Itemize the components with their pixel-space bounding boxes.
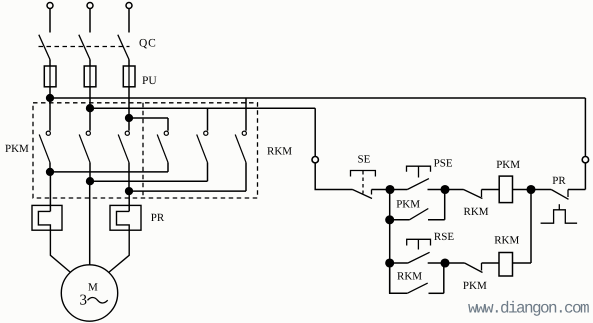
node B bbox=[441, 186, 449, 194]
wire node E to RSE bbox=[390, 262, 408, 264]
wire PR to right rail bbox=[568, 189, 585, 191]
svg-text:PKM: PKM bbox=[396, 198, 420, 210]
right rail lower bbox=[584, 163, 586, 190]
node phase3 junction bbox=[126, 115, 133, 122]
knife switch QC pole 2 blade bbox=[79, 35, 90, 60]
node F bbox=[441, 259, 449, 267]
bus line phase 2 bbox=[90, 107, 315, 109]
bus line phase 1 bbox=[50, 97, 585, 99]
wire U to heater bbox=[49, 172, 51, 212]
riser to node B bbox=[444, 190, 446, 220]
svg-text:PU: PU bbox=[142, 75, 157, 87]
fuse PU1 bbox=[44, 66, 56, 87]
PKM NO holding blade bbox=[409, 209, 428, 220]
wire node A to PSE bbox=[390, 189, 407, 191]
SE plunger link (dashed) bbox=[362, 171, 364, 194]
cross wire V (PKM2-RKM2) bbox=[90, 180, 208, 182]
wire W to heater bbox=[128, 191, 130, 211]
wire QC2 to fuse bbox=[89, 60, 91, 109]
svg-text:RKM: RKM bbox=[267, 146, 292, 158]
PKM interlock right tick bbox=[481, 263, 483, 271]
wire RKM c1 bottom bbox=[167, 163, 169, 172]
svg-text:RKM: RKM bbox=[494, 235, 519, 247]
svg-text:PKM: PKM bbox=[463, 280, 487, 292]
PSE plunger link bbox=[418, 166, 420, 177]
node U junction bbox=[47, 169, 54, 176]
start button RSE bracket bbox=[407, 239, 431, 245]
SE NC blade bbox=[353, 190, 373, 199]
coil PKM bbox=[499, 176, 512, 203]
RKM main contact 2 bbox=[197, 131, 208, 162]
wire PKM c2 bottom bbox=[89, 163, 91, 182]
wire node E down to RKM holding row bbox=[390, 263, 408, 293]
wire node B to RKM interlock bbox=[445, 189, 464, 191]
wire PKM c1 bottom bbox=[49, 163, 51, 172]
RKM NO holding blade bbox=[407, 283, 428, 293]
motor M circle bbox=[61, 265, 117, 321]
svg-text:www.diangon.com: www.diangon.com bbox=[468, 300, 589, 318]
RKM main contact 1 bbox=[157, 131, 168, 162]
wire coil PKM to node C bbox=[513, 189, 532, 191]
QC mechanical link (dashed) bbox=[39, 46, 130, 48]
wire RKM c2 bottom bbox=[207, 163, 209, 182]
dashed enclosure PKM+RKM outer bbox=[33, 103, 258, 198]
wire feed PKM contact 1 bbox=[49, 98, 51, 131]
wire PSE to node B bbox=[428, 189, 446, 191]
terminal L1 bbox=[47, 3, 53, 9]
motor tilde bbox=[88, 298, 108, 303]
PKM main contact 2 bbox=[79, 131, 90, 162]
RSE plunger link bbox=[417, 239, 419, 249]
fuse PU2 bbox=[84, 66, 96, 87]
wire feed RKM contact 2 (from phase2 bus) bbox=[207, 108, 209, 131]
bus line phase 3 bbox=[129, 117, 168, 119]
svg-text:3: 3 bbox=[80, 292, 88, 308]
wire QC3 to fuse bbox=[128, 60, 130, 119]
wire SE to node A bbox=[372, 189, 391, 191]
wire PKM c3 bottom bbox=[128, 163, 130, 192]
thermal contact PR blade bbox=[551, 190, 568, 200]
dashed divider between PKM and RKM boxes bbox=[142, 103, 144, 198]
svg-text:PSE: PSE bbox=[434, 157, 453, 169]
wire feed PKM contact 2 bbox=[89, 108, 91, 131]
left rail lower bbox=[315, 163, 352, 190]
thermal heater PR element 2 bbox=[107, 205, 141, 273]
right rail upper bbox=[584, 98, 586, 157]
wire node D to PKM aux bbox=[390, 219, 410, 221]
SE right terminal tick bbox=[371, 190, 373, 195]
wire interlock to coil RKM bbox=[482, 262, 500, 264]
wire coil RKM to riser bbox=[513, 262, 532, 264]
RKM main contact 3 bbox=[235, 131, 246, 162]
wire node C to PR contact bbox=[531, 189, 551, 191]
svg-text:PR: PR bbox=[151, 212, 165, 224]
riser coil RKM to node C bbox=[530, 190, 532, 264]
svg-text:RKM: RKM bbox=[464, 206, 489, 218]
RKM NC interlock blade bbox=[464, 190, 483, 199]
terminal L3 bbox=[126, 3, 132, 9]
RSE NO blade bbox=[408, 252, 430, 263]
node V junction bbox=[87, 178, 94, 185]
vertical branch rail from node A bbox=[389, 190, 391, 294]
fuse PU3 bbox=[123, 66, 135, 87]
svg-text:M: M bbox=[88, 282, 98, 294]
PKM main contact 1 bbox=[39, 131, 50, 162]
svg-text:PKM: PKM bbox=[5, 143, 29, 155]
wire QC1 to fuse bbox=[49, 60, 51, 99]
PR right tick bbox=[567, 190, 569, 198]
RKM interlock right tick bbox=[481, 190, 483, 198]
node E (RSE row) bbox=[386, 259, 394, 267]
left rail connector circle bbox=[312, 157, 318, 163]
riser to node F bbox=[443, 263, 445, 293]
wire L2 drop bbox=[89, 9, 91, 33]
start button PSE bracket bbox=[407, 166, 431, 172]
wire node F to PKM interlock bbox=[445, 262, 465, 264]
node phase1 junction bbox=[47, 95, 54, 102]
wire feed RKM contact 1 (from phase3 bus) bbox=[167, 118, 169, 131]
svg-text:SE: SE bbox=[358, 154, 371, 166]
control feed from phase2 bus bbox=[314, 108, 316, 156]
node D (PKM holding row) bbox=[386, 216, 394, 224]
PKM NC interlock blade bbox=[465, 263, 483, 273]
svg-text:RKM: RKM bbox=[397, 271, 422, 283]
wire RKM aux to riser bbox=[429, 292, 444, 294]
terminal L2 bbox=[87, 3, 93, 9]
svg-text:PR: PR bbox=[552, 175, 566, 187]
knife switch QC pole 3 blade bbox=[118, 35, 129, 60]
cross wire U (PKM1-RKM1) bbox=[50, 171, 168, 173]
knife switch QC pole 1 blade bbox=[39, 35, 50, 60]
PSE NO blade bbox=[407, 179, 429, 190]
wire L1 drop bbox=[49, 9, 51, 33]
stop button SE bracket bbox=[351, 171, 376, 177]
PKM main contact 3 bbox=[118, 131, 129, 162]
svg-text:PKM: PKM bbox=[496, 159, 520, 171]
wire L3 drop bbox=[128, 9, 130, 33]
node phase2 junction bbox=[87, 105, 94, 112]
wire feed RKM contact 3 (from phase1 bus) bbox=[245, 98, 247, 131]
cross wire W (PKM3-RKM3) bbox=[129, 190, 246, 192]
PR thermal element symbol bbox=[541, 204, 578, 223]
wire interlock to coil PKM bbox=[482, 189, 500, 191]
wire PKM aux to riser bbox=[428, 219, 445, 221]
wire RSE to node F bbox=[428, 262, 445, 264]
coil RKM bbox=[499, 253, 513, 277]
node W junction bbox=[126, 188, 133, 195]
svg-text:RSE: RSE bbox=[434, 231, 454, 243]
wire RKM c3 bottom bbox=[245, 163, 247, 192]
right rail connector circle bbox=[582, 157, 588, 163]
svg-text:QC: QC bbox=[139, 37, 157, 49]
wire feed PKM contact 3 bbox=[128, 118, 130, 131]
node A bbox=[386, 186, 394, 194]
node C bbox=[527, 186, 535, 194]
wire V to motor bbox=[89, 181, 91, 265]
thermal heater PR element 1 bbox=[32, 205, 72, 273]
